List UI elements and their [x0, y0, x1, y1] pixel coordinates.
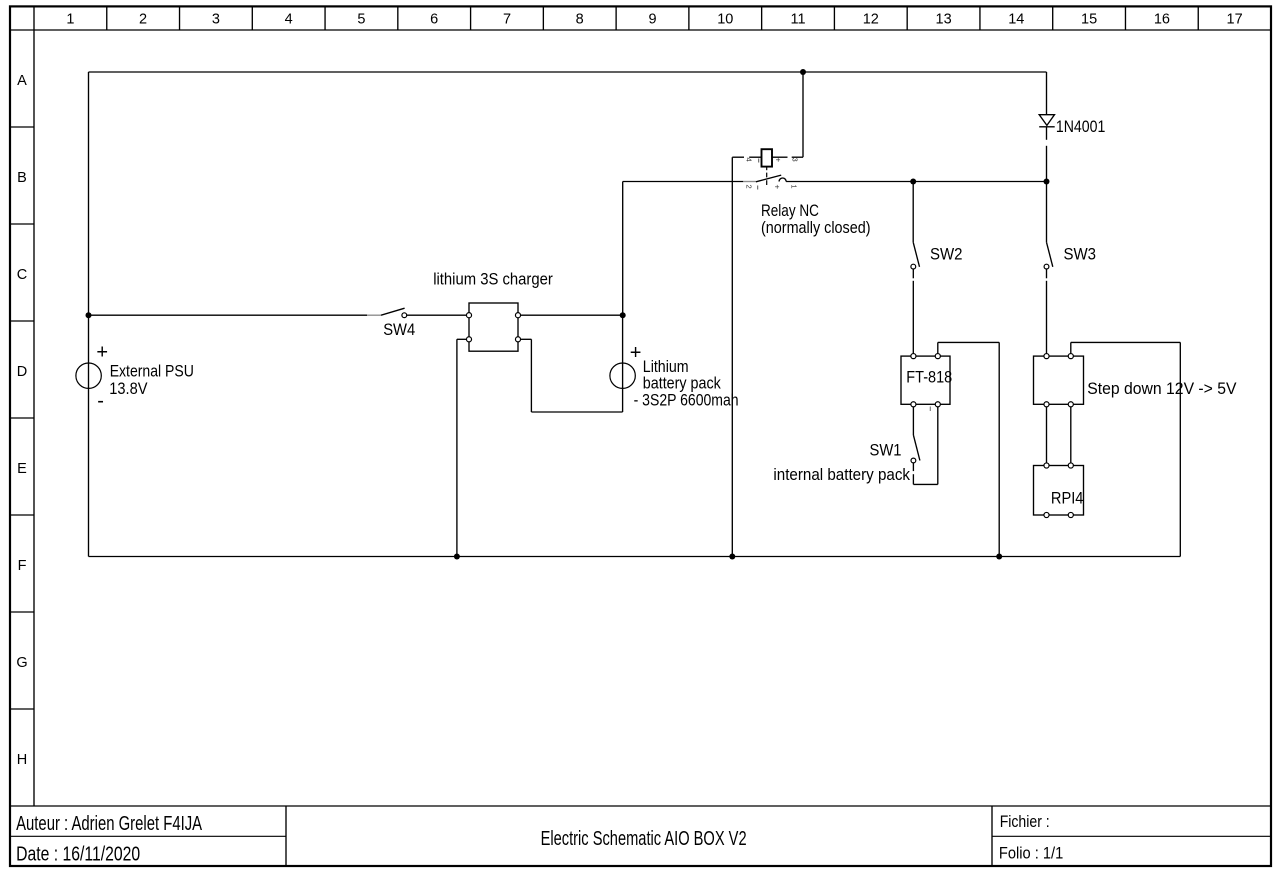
svg-text:C: C: [17, 267, 27, 283]
diode D1 1N4001: [1039, 115, 1055, 182]
wire left vertical PSU branch: [88, 72, 90, 557]
svg-text:5: 5: [357, 12, 365, 28]
pin RPI4 top-left: [1044, 463, 1049, 468]
svg-text:B: B: [17, 170, 27, 186]
svg-text:Folio : 1/1: Folio : 1/1: [999, 843, 1063, 862]
wire SW2 upper lead: [912, 182, 914, 243]
svg-text:FT-818: FT-818: [906, 367, 952, 386]
wire step-down return to bottom bus: [1070, 342, 1072, 353]
svg-text:14: 14: [1008, 12, 1024, 28]
pin step-down top-right: [1068, 354, 1073, 359]
junction node SW2 branch: [910, 179, 916, 185]
svg-text:E: E: [17, 461, 27, 477]
wire diode anode from top bus: [1046, 72, 1048, 115]
svg-text:Date : 16/11/2020: Date : 16/11/2020: [16, 842, 140, 865]
wire SW4 to charger pin: [407, 314, 467, 316]
svg-text:- 3S2P 6600mah: - 3S2P 6600mah: [634, 391, 739, 410]
wire top bus (PSU+ to diode anode): [89, 71, 1047, 73]
junction node PSU/SW4: [86, 312, 92, 318]
svg-text:H: H: [17, 752, 27, 768]
relay coil K1: [732, 149, 803, 166]
svg-text:SW1: SW1: [870, 441, 902, 460]
wire bottom bus: [89, 556, 1181, 558]
svg-text:13: 13: [936, 12, 952, 28]
wire charger bottom-left to bottom bus: [457, 338, 467, 340]
svg-text:3: 3: [791, 158, 800, 162]
source External PSU 13.8V: [76, 363, 101, 388]
wire charger to battery junction: [521, 314, 623, 316]
junction node bottom bus / charger return: [454, 554, 460, 560]
svg-text:-: -: [97, 390, 104, 412]
wire SW1 to FT-818 bottom-right (internal battery): [912, 463, 914, 471]
pin RPI4 top-right: [1068, 463, 1073, 468]
source Lithium battery pack: [610, 363, 635, 388]
junction node SW3/diode branch: [1044, 179, 1050, 185]
svg-text:9: 9: [648, 12, 656, 28]
pin FT-818 top-right: [935, 354, 940, 359]
wire FT-818 return to bottom bus: [937, 342, 939, 353]
svg-text:+: +: [773, 185, 782, 190]
svg-text:11: 11: [790, 12, 805, 28]
svg-text:SW2: SW2: [930, 245, 963, 264]
svg-text:+: +: [774, 158, 783, 163]
svg-text:RPI4: RPI4: [1051, 489, 1084, 508]
switch SW4: [381, 308, 407, 317]
svg-text:6: 6: [430, 12, 438, 28]
wire step-down to RPI4 left: [1046, 407, 1048, 463]
pin charger top-left: [466, 313, 471, 318]
pin step-down bottom-left: [1044, 402, 1049, 407]
svg-text:3: 3: [212, 12, 220, 28]
pin FT-818 bottom-right: [935, 402, 940, 407]
switch SW1: [911, 435, 920, 463]
wire PSU to SW4: [89, 314, 368, 316]
svg-text:+: +: [630, 342, 642, 364]
svg-text:Electric Schematic AIO BOX V2: Electric Schematic AIO BOX V2: [541, 827, 747, 850]
device RPI4 box: [1034, 466, 1084, 516]
svg-text:SW3: SW3: [1064, 245, 1097, 264]
wire step-down to RPI4 right: [1070, 407, 1072, 463]
wire relay coil left to bottom bus: [731, 157, 733, 556]
svg-text:2: 2: [139, 12, 147, 28]
wire SW3 to step-down: [1046, 269, 1048, 278]
svg-text:battery pack: battery pack: [643, 373, 722, 392]
svg-text:A: A: [17, 73, 27, 89]
svg-text:SW4: SW4: [383, 320, 415, 339]
pin FT-818 top-left: [911, 354, 916, 359]
wire charger bottom-right to battery minus: [521, 338, 532, 340]
relay contact right terminal arc: [779, 178, 786, 182]
svg-text:16: 16: [1154, 12, 1170, 28]
svg-text:12: 12: [863, 12, 879, 28]
svg-text:internal battery pack: internal battery pack: [773, 465, 910, 484]
svg-text:G: G: [16, 655, 27, 671]
svg-text:+: +: [96, 341, 108, 363]
svg-text:Auteur : Adrien Grelet F4IJA: Auteur : Adrien Grelet F4IJA: [16, 812, 202, 835]
switch SW3: [1044, 242, 1053, 269]
relay actuation dashed link: [766, 167, 768, 171]
device step-down converter box: [1034, 356, 1084, 404]
wire SW2 to FT-818: [912, 269, 914, 278]
pin RPI4 bottom-left: [1044, 512, 1049, 517]
pin label coil tick: [758, 159, 760, 163]
device FT-818 box: [901, 356, 950, 404]
svg-text:2: 2: [745, 185, 754, 189]
pin charger bottom-left: [466, 337, 471, 342]
svg-text:Step down 12V -> 5V: Step down 12V -> 5V: [1087, 379, 1237, 398]
pin label contact tick: [757, 186, 759, 190]
svg-text:(normally closed): (normally closed): [761, 218, 871, 237]
svg-text:Fichier :: Fichier :: [1000, 812, 1050, 831]
pin RPI4 bottom-right: [1068, 512, 1073, 517]
svg-text:4: 4: [285, 12, 293, 28]
wire FT-818 bottom-left to SW1: [912, 407, 914, 435]
svg-text:10: 10: [717, 12, 733, 28]
wire relay contact to SW2/SW3 junctions: [786, 181, 1046, 183]
relay contact NC blade: [756, 175, 781, 182]
svg-text:17: 17: [1227, 12, 1243, 28]
charger lithium 3S box: [469, 303, 518, 351]
svg-text:7: 7: [503, 12, 511, 28]
svg-text:1N4001: 1N4001: [1056, 117, 1105, 136]
svg-text:1: 1: [66, 12, 74, 28]
svg-text:D: D: [17, 364, 27, 380]
svg-text:lithium 3S charger: lithium 3S charger: [433, 269, 553, 288]
pin step-down bottom-right: [1068, 402, 1073, 407]
svg-text:External PSU: External PSU: [110, 362, 194, 381]
wire relay contact line from battery junction: [623, 181, 744, 183]
wire relay coil branch from top bus: [802, 72, 804, 157]
svg-text:4: 4: [745, 158, 754, 162]
switch SW2: [911, 242, 920, 269]
pin FT-818 bottom-left: [911, 402, 916, 407]
svg-text:F: F: [18, 558, 27, 574]
svg-text:8: 8: [576, 12, 584, 28]
junction node charger/battery/relay: [620, 312, 626, 318]
pin charger top-right: [515, 313, 520, 318]
pin charger bottom-right: [515, 337, 520, 342]
junction node top bus / relay coil: [800, 69, 806, 75]
junction node bottom bus / FT-818 return: [996, 554, 1002, 560]
pin step-down top-left: [1044, 354, 1049, 359]
junction node bottom bus / relay coil return: [729, 554, 735, 560]
wire battery junction up to relay contact line: [622, 182, 624, 316]
svg-text:15: 15: [1081, 12, 1097, 28]
svg-text:13.8V: 13.8V: [109, 379, 148, 398]
wire SW3 upper lead: [1046, 182, 1048, 243]
pin label FT-818 bottom tick: [929, 407, 931, 412]
svg-text:1: 1: [790, 185, 799, 189]
